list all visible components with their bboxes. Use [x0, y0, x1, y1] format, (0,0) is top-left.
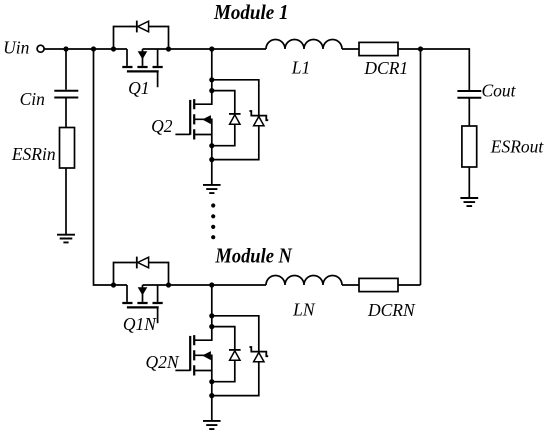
wire Cin to ESRin: [65, 98, 67, 128]
node Q2 diode junction top: [209, 88, 214, 93]
diode DN3 schottky of Q2N: [212, 316, 268, 396]
svg-text:Module 1: Module 1: [213, 0, 288, 24]
wire output rail: [398, 49, 469, 90]
node switch junction module 1: [209, 46, 214, 51]
node Q2N schottky junction bottom: [209, 393, 214, 398]
node diode DN1 right junction: [166, 282, 171, 287]
node switch junction module N: [209, 282, 214, 287]
wire Cin branch: [65, 49, 67, 90]
transistor Q1: [122, 49, 162, 87]
diode DN2 body diode of Q2N: [212, 327, 241, 382]
node Q2 diode junction bottom: [209, 143, 214, 148]
resistor ESRin: [60, 128, 75, 169]
node continuation dots: [211, 203, 215, 239]
svg-text:DCR1: DCR1: [363, 58, 408, 78]
svg-text:Cout: Cout: [482, 81, 517, 101]
svg-text:L1: L1: [291, 58, 310, 78]
diode D2 body diode of Q2: [212, 91, 241, 146]
ground output branch: [460, 198, 478, 206]
inductor L1: [266, 40, 342, 50]
svg-text:Q2N: Q2N: [145, 352, 179, 372]
diode DN1 body diode of Q1N: [114, 257, 169, 285]
node input-Cin junction: [63, 46, 68, 51]
node diode D1 right junction: [166, 46, 171, 51]
wire Cout to ESRout: [468, 98, 470, 126]
transistor Q2N: [175, 335, 211, 420]
svg-text:ESRout: ESRout: [490, 137, 545, 157]
transistor Q2: [175, 99, 211, 184]
node input feed junction: [91, 46, 96, 51]
ground module N: [203, 421, 221, 429]
svg-text:Q1N: Q1N: [123, 314, 157, 334]
wire Q2 drain: [195, 49, 212, 104]
wire ESRout to ground: [468, 167, 470, 197]
node Q2N diode junction top: [209, 324, 214, 329]
wire Q2N drain: [195, 285, 212, 340]
resistor DCR1: [359, 42, 398, 55]
capacitor Cout: [457, 91, 481, 98]
node Q2 schottky junction top: [209, 77, 214, 82]
svg-text:Q1: Q1: [128, 78, 149, 98]
svg-text:ESRin: ESRin: [11, 144, 56, 164]
node output junction: [418, 46, 423, 51]
ground module 1: [203, 185, 221, 193]
wire DCRN to output: [398, 284, 421, 286]
capacitor Cin: [54, 91, 78, 98]
node Uin terminal: [37, 45, 44, 52]
wire LN to DCRN: [342, 284, 359, 286]
node Q2N diode junction bottom: [209, 379, 214, 384]
resistor ESRout: [462, 126, 477, 167]
svg-text:LN: LN: [292, 299, 316, 319]
wire ESRin to ground: [65, 168, 67, 234]
wire switch node rail module 1: [143, 48, 267, 50]
svg-text:DCRN: DCRN: [367, 300, 416, 320]
transistor Q1N: [122, 285, 162, 323]
svg-text:Uin: Uin: [3, 37, 30, 57]
diode D3 schottky of Q2: [212, 80, 268, 160]
node Q2 schottky junction bottom: [209, 157, 214, 162]
ground input branch: [57, 235, 75, 243]
wire L1 to DCR1: [342, 48, 359, 50]
node Q2N schottky junction top: [209, 313, 214, 318]
wire input feed to module N: [94, 49, 128, 285]
wire output to module N: [420, 49, 422, 285]
wire switch node rail module N: [143, 284, 267, 286]
svg-text:Cin: Cin: [20, 89, 46, 109]
svg-text:Module N: Module N: [215, 244, 294, 268]
inductor LN: [266, 276, 342, 286]
node diode DN1 left junction: [111, 282, 116, 287]
svg-text:Q2: Q2: [151, 116, 173, 136]
node diode D1 left junction: [111, 46, 116, 51]
resistor DCRN: [359, 278, 398, 291]
diode D1 body diode of Q1: [114, 27, 136, 50]
wire input rail: [44, 48, 127, 50]
